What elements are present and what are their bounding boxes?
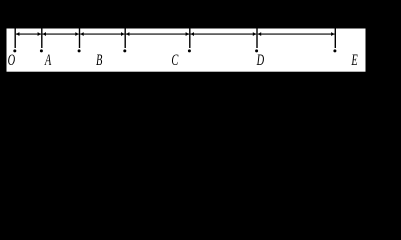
- arrowheads segment 3: [80, 32, 83, 36]
- tick t6: [256, 29, 258, 49]
- arrowheads segment 5: [191, 32, 194, 36]
- dot tick4: [123, 49, 126, 52]
- black background: [0, 0, 401, 76]
- tick t7: [334, 29, 336, 49]
- svg-text:A: A: [44, 51, 52, 69]
- arrow shaft segment 1: [16, 33, 41, 35]
- arrowheads segment 4: [126, 32, 129, 36]
- svg-text:C: C: [171, 51, 179, 69]
- tick t2: [41, 29, 43, 49]
- dot point B-tick3: [78, 49, 81, 52]
- dot point D-tick6: [255, 49, 258, 52]
- svg-text:E: E: [351, 51, 359, 69]
- tick t5: [189, 29, 191, 49]
- arrow shaft segment 5: [191, 33, 257, 35]
- dot point E-tick7: [333, 49, 336, 52]
- arrow shaft segment 2: [43, 33, 79, 35]
- arrow shaft segment 3: [80, 33, 124, 35]
- svg-text:B: B: [96, 51, 102, 69]
- svg-text:D: D: [256, 51, 264, 69]
- arrowheads segment 2: [43, 32, 46, 36]
- white drawing panel: [7, 29, 366, 72]
- dot point O: [13, 49, 16, 52]
- tick t4: [124, 29, 126, 49]
- dot point A: [40, 49, 43, 52]
- arrowheads segment 1: [16, 32, 19, 36]
- arrow shaft segment 4: [126, 33, 189, 35]
- tick t1: [14, 29, 16, 49]
- arrow shaft segment 6: [258, 33, 335, 35]
- dot point C-tick5: [188, 49, 191, 52]
- tick t3: [79, 29, 81, 49]
- svg-text:O: O: [8, 51, 16, 69]
- arrowheads segment 6: [258, 32, 261, 36]
